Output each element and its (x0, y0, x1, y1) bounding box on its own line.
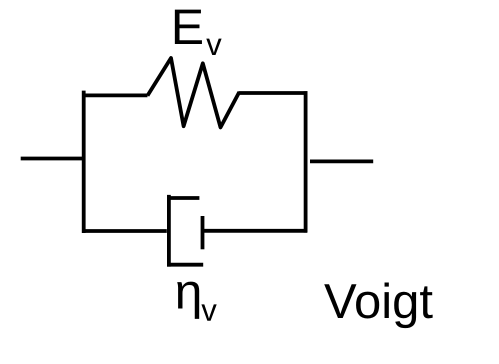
svg-text:η: η (175, 264, 203, 320)
svg-text:Voigt: Voigt (324, 275, 433, 329)
svg-text:E: E (171, 0, 204, 55)
